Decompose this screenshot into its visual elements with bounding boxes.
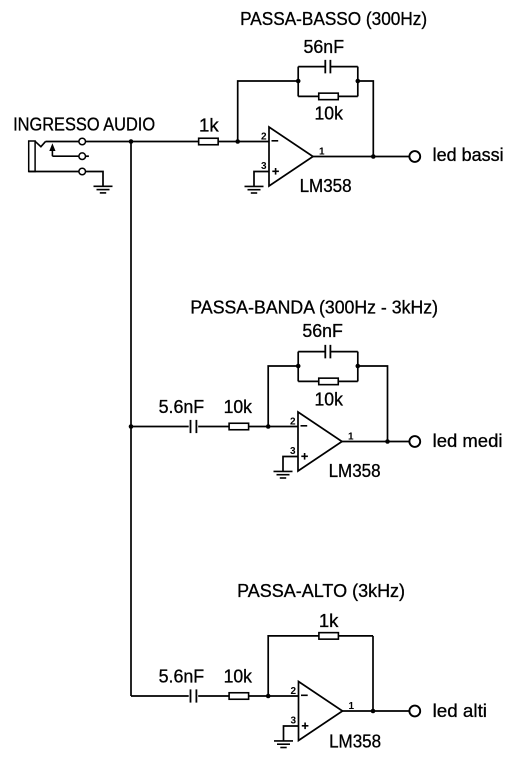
svg-text:2: 2	[261, 131, 267, 142]
svg-text:10k: 10k	[224, 667, 253, 687]
svg-text:1k: 1k	[199, 115, 220, 135]
svg-text:led alti: led alti	[433, 701, 487, 721]
svg-text:3: 3	[261, 161, 267, 172]
svg-text:56nF: 56nF	[304, 37, 345, 57]
svg-text:2: 2	[290, 686, 296, 697]
svg-text:3: 3	[290, 716, 296, 727]
svg-text:led bassi: led bassi	[433, 145, 504, 165]
svg-text:3: 3	[290, 446, 296, 457]
svg-text:led medi: led medi	[433, 431, 503, 451]
svg-text:LM358: LM358	[300, 176, 352, 196]
svg-text:PASSA-BASSO (300Hz): PASSA-BASSO (300Hz)	[240, 9, 427, 29]
svg-text:2: 2	[290, 416, 296, 427]
svg-text:PASSA-ALTO (3kHz): PASSA-ALTO (3kHz)	[237, 581, 405, 601]
svg-text:1k: 1k	[319, 611, 340, 631]
svg-text:LM358: LM358	[329, 461, 381, 481]
svg-text:INGRESSO AUDIO: INGRESSO AUDIO	[13, 115, 155, 135]
svg-text:10k: 10k	[224, 397, 253, 417]
svg-text:5.6nF: 5.6nF	[159, 667, 205, 687]
svg-text:5.6nF: 5.6nF	[159, 397, 205, 417]
svg-text:LM358: LM358	[329, 732, 381, 752]
svg-text:10k: 10k	[315, 390, 344, 410]
svg-text:PASSA-BANDA (300Hz - 3kHz): PASSA-BANDA (300Hz - 3kHz)	[190, 297, 438, 317]
svg-text:56nF: 56nF	[302, 321, 343, 341]
svg-text:10k: 10k	[315, 103, 344, 123]
